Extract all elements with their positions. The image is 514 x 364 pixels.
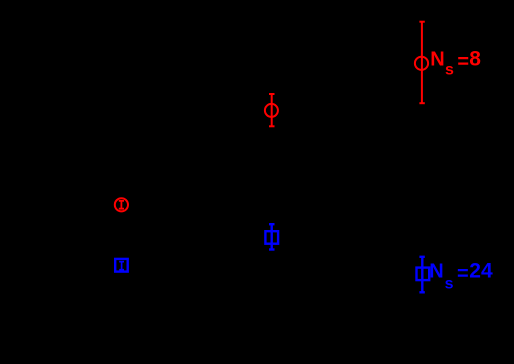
source I2 (blue box with I) [115,259,128,272]
wire stem [271,94,273,126]
terminal tick top [419,256,424,258]
svg-text:s: s [445,61,454,78]
svg-text:8: 8 [469,48,481,71]
winding body (box) [265,231,278,244]
terminal tick bottom [269,125,275,127]
winding W4 Ns=24 (blue, right branch, box symbol) [417,257,430,293]
svg-text:=: = [457,263,469,285]
svg-text:s: s [445,276,454,293]
svg-text:24: 24 [469,260,493,283]
terminal tick top [269,223,275,225]
label Ns=8 [430,48,481,79]
terminal tick top [419,21,424,23]
wire stem [421,22,423,104]
wire stem [271,224,273,249]
svg-text:N: N [430,48,444,70]
winding W3 Ns=8 (red, right branch, circle symbol) [415,22,428,104]
terminal tick top [269,93,275,95]
winding body (box) [417,268,430,281]
winding W2 (blue, center branch, box symbol) [265,224,278,249]
winding body (circle) [415,57,428,70]
svg-text:=: = [457,51,469,73]
winding W1 (red, center branch, circle symbol) [265,94,278,126]
label Ns=24 [429,260,493,293]
terminal tick bottom [419,102,424,104]
svg-text:N: N [429,261,443,283]
wire stem [421,257,423,293]
terminal tick bottom [269,248,275,250]
current source I1 (red circle with I) [115,198,128,211]
terminal tick bottom [419,291,424,293]
winding body (circle) [265,104,278,117]
